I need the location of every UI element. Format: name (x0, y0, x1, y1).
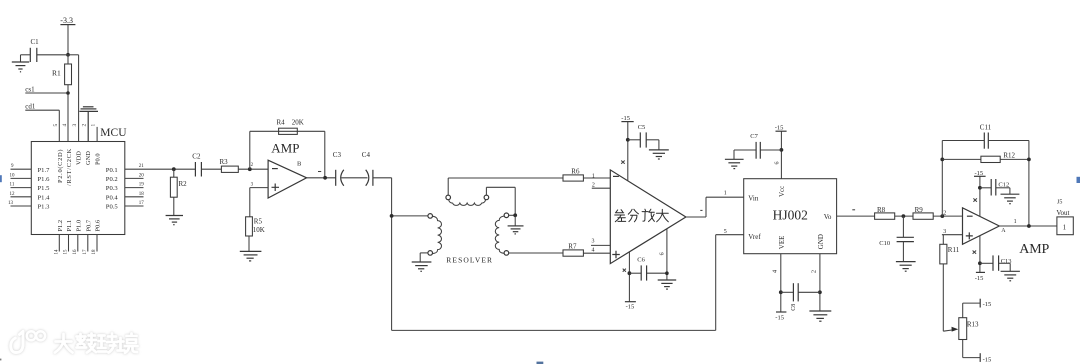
svg-text:HJ002: HJ002 (773, 207, 808, 222)
capacitor C7 (734, 133, 781, 159)
MCU U1 (31, 127, 127, 235)
ground at C5 (649, 150, 669, 159)
svg-text:VDD: VDD (76, 151, 83, 165)
resistor R1 (52, 55, 72, 142)
svg-text:cs1: cs1 (25, 85, 35, 93)
wire HJ002 Vref pin 5 (716, 229, 744, 331)
capacitor C5 (628, 124, 659, 150)
svg-text:cd1: cd1 (25, 103, 36, 111)
ground at C10 (896, 262, 916, 272)
svg-text:10: 10 (10, 173, 16, 178)
svg-text:C4: C4 (362, 151, 371, 159)
node resolver drive (390, 214, 394, 218)
diff amp bottom supply -15 (623, 252, 636, 311)
capacitor C1 (21, 38, 40, 62)
capacitor C2 (192, 153, 221, 177)
svg-text:R3: R3 (220, 158, 229, 166)
svg-text:19: 19 (139, 183, 145, 188)
svg-text:R2: R2 (179, 180, 188, 188)
svg-text:P1.3: P1.3 (38, 204, 51, 211)
svg-text:GND: GND (85, 151, 92, 165)
svg-text:P1.4: P1.4 (38, 194, 51, 201)
capacitor C12 (980, 179, 1010, 196)
svg-text:4: 4 (592, 248, 595, 254)
wire HJ002 Vo out (837, 210, 875, 216)
svg-text:P1.5: P1.5 (38, 185, 51, 192)
ground at C1 (12, 62, 29, 72)
ground at HJ002 pin2 (809, 311, 831, 321)
blue artifact left edge (0, 175, 2, 182)
svg-text:P0.2: P0.2 (106, 176, 118, 183)
resistor R9 (913, 206, 963, 219)
svg-text:-15: -15 (775, 124, 784, 131)
svg-text:-15: -15 (975, 275, 984, 282)
svg-text:17: 17 (83, 249, 88, 255)
resolver stator winding top (446, 178, 489, 205)
svg-text:R6: R6 (571, 167, 580, 175)
svg-text:VEE: VEE (778, 236, 786, 250)
wire AMP1 output (307, 172, 336, 180)
svg-text:2: 2 (811, 270, 818, 273)
svg-text:P1.0: P1.0 (75, 220, 82, 232)
svg-text:-15: -15 (975, 170, 984, 177)
resistor R8 (875, 206, 913, 219)
svg-text:-15: -15 (626, 304, 635, 311)
svg-text:J5: J5 (1057, 199, 1062, 205)
svg-text:P0.1: P0.1 (106, 167, 118, 174)
resistor R7 (563, 242, 610, 256)
resistor R3 (220, 158, 269, 172)
svg-text:1: 1 (592, 173, 595, 179)
svg-text:P1.1: P1.1 (66, 220, 73, 232)
svg-text:/RST/C2CK: /RST/C2CK (66, 148, 73, 186)
svg-text:MCU: MCU (100, 127, 127, 139)
svg-text:6: 6 (660, 252, 666, 255)
svg-text:-3.3: -3.3 (60, 16, 73, 25)
svg-text:GND: GND (817, 234, 825, 249)
svg-text:14: 14 (54, 249, 59, 255)
capacitor C6 (629, 257, 667, 281)
svg-text:P0.4: P0.4 (106, 194, 119, 201)
svg-text:3: 3 (72, 124, 78, 127)
resolver secondary winding right (495, 213, 563, 255)
wire AMP1 feedback loop (250, 131, 325, 178)
node AMP1 inverting input (248, 167, 252, 171)
HJ002 pin 6 supply -15 (774, 124, 786, 178)
blue artifact right edge (1077, 177, 1080, 183)
svg-text:2: 2 (943, 210, 946, 216)
resolver T1 primary winding (428, 214, 442, 256)
svg-text:AMP: AMP (271, 141, 299, 156)
svg-text:-15: -15 (621, 115, 630, 122)
resistor R6 (448, 167, 610, 181)
svg-text:11: 11 (10, 183, 15, 188)
potentiometer R13 (959, 299, 991, 364)
svg-text:P2.0(C2D): P2.0(C2D) (57, 149, 64, 183)
svg-text:Vin: Vin (748, 195, 759, 203)
ground resolver primary (412, 253, 432, 271)
svg-text:20: 20 (139, 173, 145, 178)
svg-text:5: 5 (724, 229, 727, 235)
MCU right pins P0.1-P0.5 (106, 164, 145, 210)
svg-text:P0.5: P0.5 (106, 204, 119, 211)
node R8/C10 (902, 214, 906, 218)
svg-text:21: 21 (139, 164, 145, 169)
svg-text:20K: 20K (292, 119, 304, 127)
svg-text:2: 2 (82, 124, 88, 127)
watermark logo and text (11, 331, 138, 353)
svg-text:C7: C7 (750, 133, 758, 140)
MCU pin P0.0 stub (91, 124, 98, 142)
wire junction to C1 (37, 54, 68, 56)
HJ002 U4 (744, 179, 837, 254)
svg-text:13: 13 (8, 201, 14, 206)
wire diff amp output to HJ002 Vin (686, 197, 744, 217)
svg-text:10K: 10K (253, 226, 265, 234)
diff amp pin 6 to ground (660, 229, 669, 280)
svg-text:12: 12 (10, 192, 16, 197)
svg-text:-15: -15 (983, 356, 992, 363)
svg-text:P0.6: P0.6 (95, 220, 102, 232)
ground resolver stator (508, 215, 524, 234)
svg-text:A: A (1001, 228, 1006, 234)
wire AMP2 feedback left vertical (940, 141, 944, 217)
svg-text:-15: -15 (775, 314, 784, 321)
HJ002 pin 2 GND (811, 254, 822, 311)
svg-text:1: 1 (91, 124, 97, 127)
diff amp top supply -15 (621, 115, 634, 181)
wire feedback bottom loop (392, 329, 716, 331)
svg-text:18: 18 (92, 249, 97, 255)
svg-text:AMP: AMP (1019, 242, 1049, 257)
svg-text:R13: R13 (967, 321, 979, 329)
svg-text:C12: C12 (998, 181, 1009, 188)
svg-text:C11: C11 (980, 124, 992, 132)
svg-text:1: 1 (1063, 224, 1067, 232)
svg-text:5: 5 (53, 124, 59, 127)
svg-text:C1: C1 (31, 38, 40, 46)
svg-text:C5: C5 (638, 124, 646, 131)
svg-text:R5: R5 (254, 218, 263, 226)
svg-text:P1.2: P1.2 (57, 220, 64, 232)
MCU bottom pins (54, 219, 101, 254)
svg-text:Vcc: Vcc (778, 186, 786, 197)
resistor R11 (940, 235, 960, 332)
svg-text:16: 16 (73, 249, 78, 255)
wire C4 down to resolver (392, 178, 428, 331)
resistor R2 (170, 169, 187, 215)
svg-text:C10: C10 (879, 240, 890, 247)
svg-text:C6: C6 (637, 257, 645, 264)
power rail -3.3 (60, 16, 75, 55)
resistor R12 (942, 152, 1029, 163)
node cs1 (25, 85, 69, 94)
op-amp U5 AMP (963, 208, 1007, 245)
node AMP2 inverting input (940, 210, 946, 218)
MCU left pins P1.7-P1.3 (8, 164, 50, 210)
svg-text:C3: C3 (333, 151, 342, 159)
HJ002 pin 4 VEE to -15 (772, 254, 787, 322)
ground at C6 (658, 280, 677, 289)
svg-text:Vo: Vo (824, 213, 832, 221)
capacitor C3 (333, 151, 368, 186)
svg-text:C2: C2 (192, 153, 201, 161)
wire stator right to ground (486, 187, 515, 215)
ground under R2 (166, 216, 183, 225)
capacitor C10 (879, 216, 914, 261)
svg-text:R7: R7 (568, 242, 577, 250)
ground above MCU (inverted) (79, 107, 98, 142)
wire AMP2 output (999, 219, 1057, 228)
svg-text:R1: R1 (52, 69, 61, 78)
svg-text:Vref: Vref (748, 233, 761, 241)
svg-text:15: 15 (64, 249, 69, 255)
svg-text:P0.7: P0.7 (85, 219, 92, 231)
capacitor C11 (942, 124, 1029, 149)
node P0.1/R2 (172, 167, 176, 171)
ground under R5 (240, 251, 262, 261)
svg-text:C8: C8 (791, 304, 797, 311)
ground at C12 (1001, 194, 1020, 204)
svg-text:B: B (297, 161, 302, 168)
svg-text:P1.7: P1.7 (38, 167, 51, 174)
wire P0.1 out (125, 168, 196, 170)
svg-text:1: 1 (1014, 219, 1017, 225)
svg-text:6: 6 (774, 162, 780, 165)
svg-text:1: 1 (724, 190, 727, 196)
ground at C13 (1001, 271, 1020, 281)
AMP2 top supply -15 (973, 170, 985, 216)
svg-text:17: 17 (139, 201, 145, 206)
resistor R4 20K (277, 119, 304, 135)
svg-text:R11: R11 (948, 246, 960, 254)
svg-text:18: 18 (139, 192, 145, 197)
blue artifact bottom (537, 362, 544, 364)
svg-text:P0.0: P0.0 (94, 153, 101, 165)
capacitor C4 (362, 151, 392, 186)
AMP2 bottom supply -15 (973, 236, 985, 282)
op-amp U2 AMP (251, 141, 307, 199)
capacitor C13 (980, 255, 1012, 271)
node stator ground (513, 213, 517, 217)
ground at C7 (725, 159, 744, 168)
wire AMP2 feedback right vertical (1027, 141, 1031, 227)
node VDD junction (66, 53, 70, 57)
connector J5 Vout (1056, 199, 1073, 234)
svg-text:4: 4 (62, 124, 68, 127)
wire AMP1 non-inverting input (250, 188, 268, 217)
capacitor C8 (781, 283, 820, 311)
svg-text:3: 3 (943, 229, 946, 235)
wire VDD branch (68, 55, 79, 142)
svg-text:P1.6: P1.6 (38, 176, 51, 183)
svg-text:Vout: Vout (1056, 209, 1069, 217)
MCU top pin numbers (53, 124, 88, 127)
svg-text:-15: -15 (983, 301, 992, 308)
wire AMP2 non-inverting input (942, 229, 963, 235)
resistor R5 10K (246, 217, 265, 252)
svg-text:RESOLVER: RESOLVER (446, 255, 493, 264)
potentiometer R13 wiper arrow (952, 327, 959, 332)
svg-text:R12: R12 (1003, 152, 1015, 160)
label 差分放大 (615, 209, 669, 222)
svg-text:3: 3 (592, 238, 595, 244)
svg-text:R4: R4 (277, 119, 286, 127)
node cd1 (25, 103, 59, 142)
MCU top pin labels (57, 148, 102, 186)
diff amp U3 (591, 170, 686, 264)
svg-text:P0.3: P0.3 (106, 185, 119, 192)
